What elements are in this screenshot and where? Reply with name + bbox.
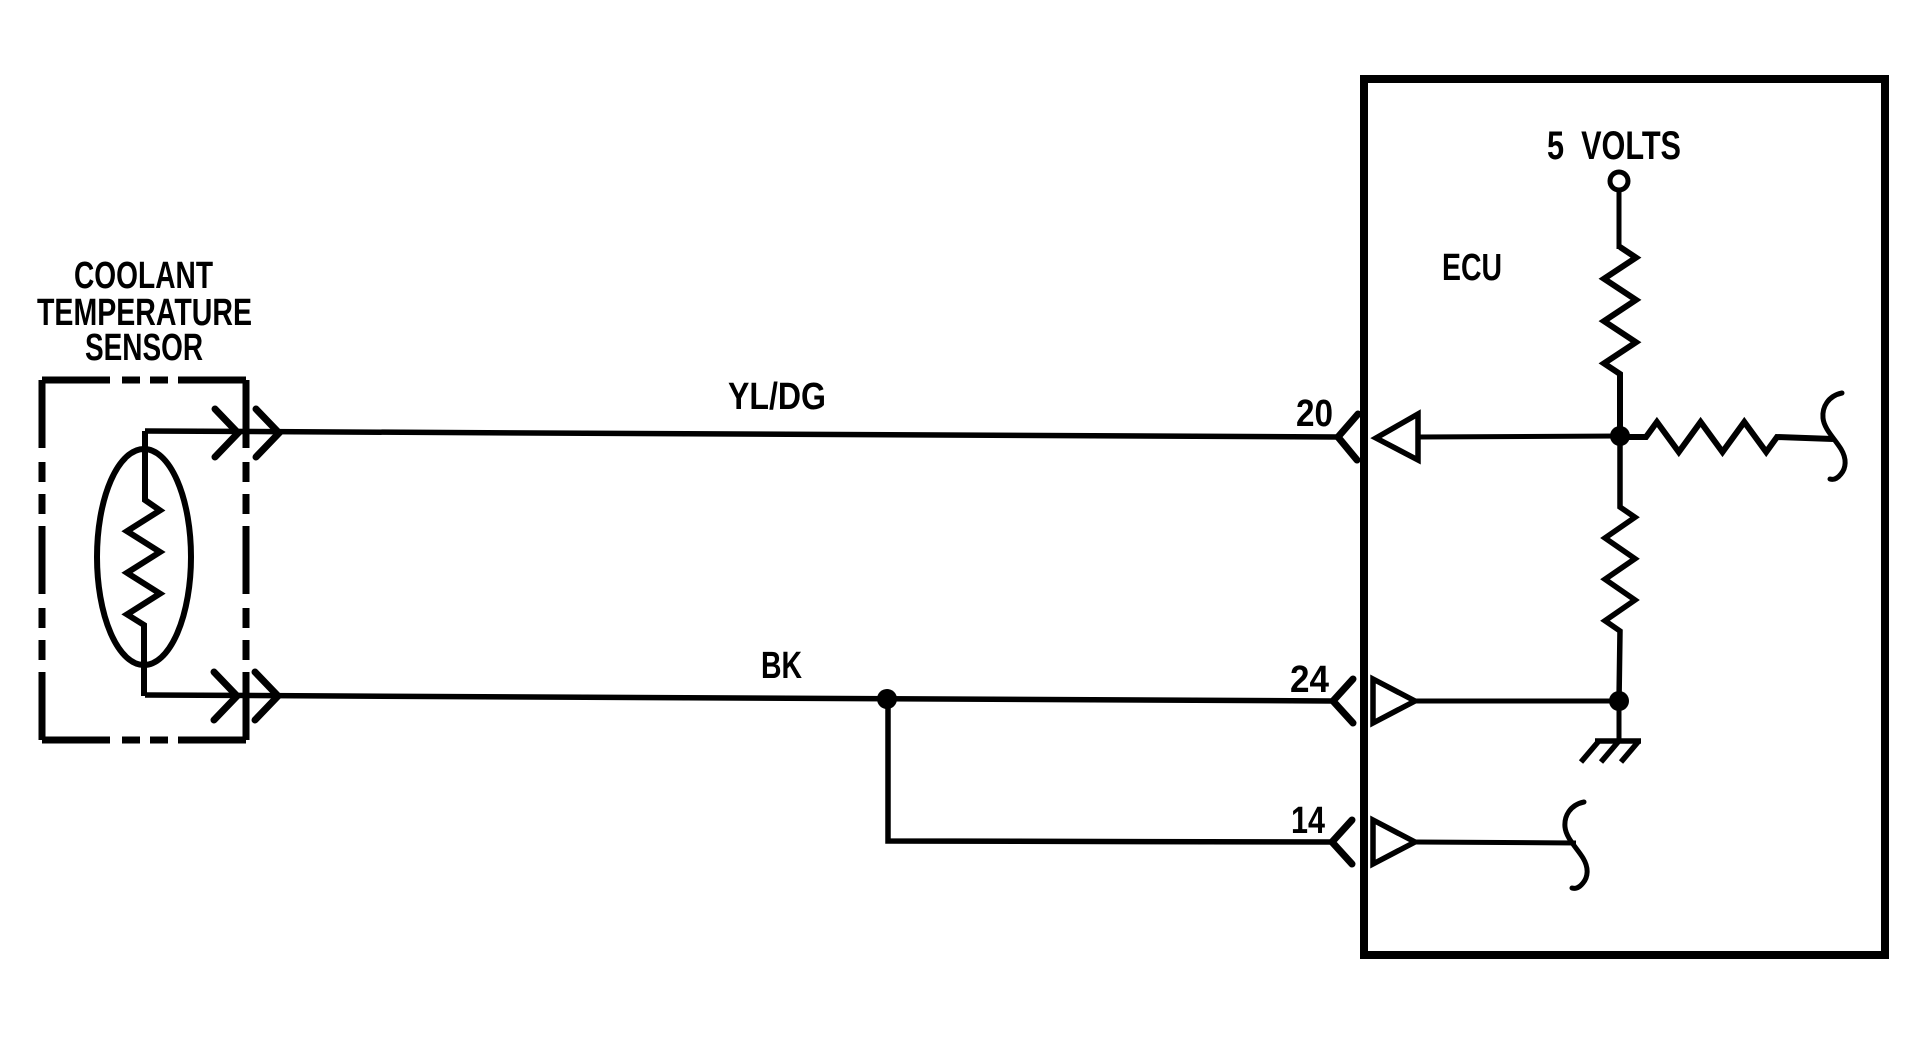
thermistor resistor element: [127, 431, 160, 696]
pin 14 connector chevron: [1332, 820, 1352, 864]
svg-text:YL/DG: YL/DG: [728, 376, 826, 418]
pin 20 signal arrow (points left): [1376, 414, 1418, 460]
internal resistor (horizontal) right of node A: [1629, 422, 1833, 452]
pull-up resistor (upper, vertical): [1604, 247, 1636, 436]
svg-text:24: 24: [1290, 659, 1329, 701]
wire break symbol right of horizontal resistor: [1823, 393, 1845, 479]
connector chevrons at sensor, top wire: [215, 409, 279, 457]
wire pin 14 arrow to break: [1415, 842, 1576, 843]
pin 20 connector chevron: [1338, 414, 1358, 460]
pin 14 signal arrow (points right): [1373, 820, 1415, 864]
pin 24 connector chevron: [1333, 679, 1353, 723]
svg-text:5 VOLTS: 5 VOLTS: [1547, 124, 1681, 168]
wire node B to pin 24 arrow: [1415, 699, 1619, 704]
pin 24 signal arrow (points right): [1373, 679, 1415, 723]
connector chevrons at sensor, bottom wire: [214, 672, 278, 720]
node A junction dot: [1610, 426, 1630, 446]
wire node A to pin 20 arrow: [1418, 436, 1620, 437]
svg-text:COOLANT: COOLANT: [74, 255, 213, 297]
ground lead below node B: [1617, 701, 1622, 741]
svg-text:BK: BK: [761, 645, 802, 687]
node B junction dot: [1609, 691, 1629, 711]
pull-down resistor (lower, vertical) node A to node B: [1605, 436, 1635, 701]
wire YL/DG (top) sensor to ECU pin 20: [145, 431, 1338, 437]
svg-text:14: 14: [1291, 800, 1325, 842]
ECU box: [1364, 79, 1885, 955]
wire BK (bottom) sensor to ECU pin 24: [145, 695, 1333, 701]
splice junction on BK wire: [877, 689, 897, 709]
thermistor ellipse: [97, 449, 191, 665]
wire break symbol on pin 14 wire: [1565, 802, 1587, 888]
wire 5V terminal to resistor: [1617, 190, 1622, 249]
branch wire from splice down to pin 14: [888, 699, 1332, 842]
coolant temperature sensor label: [37, 255, 252, 369]
svg-text:20: 20: [1296, 393, 1333, 435]
svg-text:SENSOR: SENSOR: [85, 327, 203, 369]
5V terminal circle: [1610, 172, 1628, 190]
chassis ground symbol: [1581, 741, 1641, 762]
coolant temperature sensor boundary (dash-dot box): [42, 380, 246, 740]
svg-text:ECU: ECU: [1442, 247, 1502, 289]
